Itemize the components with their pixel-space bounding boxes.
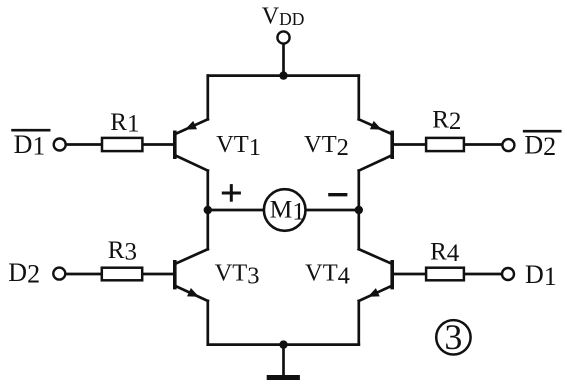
- svg-text:3: 3: [444, 317, 462, 357]
- svg-text:D1: D1: [14, 130, 46, 161]
- svg-text:M1: M1: [270, 195, 305, 226]
- svg-text:VT3: VT3: [215, 260, 260, 290]
- svg-text:R2: R2: [432, 107, 461, 136]
- svg-text:D2: D2: [8, 258, 40, 289]
- svg-text:R4: R4: [430, 238, 460, 267]
- svg-text:D1: D1: [525, 260, 557, 291]
- svg-text:R3: R3: [108, 237, 137, 266]
- svg-text:D2: D2: [524, 131, 556, 162]
- svg-text:VT2: VT2: [304, 131, 349, 161]
- svg-text:VT1: VT1: [216, 131, 261, 161]
- svg-text:VT4: VT4: [305, 260, 350, 290]
- svg-text:R1: R1: [110, 109, 139, 138]
